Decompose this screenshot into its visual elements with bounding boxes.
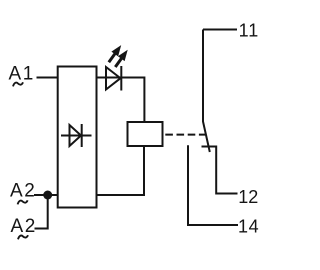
AC symbol ~ under lower A2 <box>18 235 28 239</box>
wire terminal 11 <box>203 29 237 31</box>
LED emission arrow 2 <box>115 50 127 67</box>
svg-text:A1: A1 <box>9 64 35 85</box>
AC symbol ~ under A1 <box>13 82 23 86</box>
svg-text:12: 12 <box>238 187 258 207</box>
NC contact 12 branch <box>202 147 238 194</box>
dashed actuation line coil to contact lever <box>165 134 205 136</box>
relay coil K1 <box>128 122 163 146</box>
terminal label A1 <box>9 64 35 85</box>
AC symbol ~ under upper A2 <box>18 200 28 204</box>
terminal label 12 <box>238 187 258 207</box>
terminal label 11 <box>239 21 260 41</box>
terminal label 14 <box>238 217 259 237</box>
diode D1 inside block <box>61 124 92 147</box>
NO contact 14 branch <box>188 145 238 225</box>
terminal label A2 (lower) <box>11 216 37 237</box>
LED emission arrow 1 <box>109 45 121 62</box>
LED diode <box>106 66 121 91</box>
contact lever from 11 <box>203 30 210 153</box>
wire A2 (lower) up to junction <box>35 195 48 229</box>
terminal label A2 (upper) <box>10 181 36 202</box>
svg-text:A2: A2 <box>11 216 37 237</box>
wire rectifier to LED to coil corner <box>97 78 145 123</box>
wire A2 (upper) to junction <box>34 194 58 196</box>
rectifier block outline <box>58 67 97 208</box>
wire coil bottom to rectifier bottom <box>97 146 145 195</box>
wire A1 to rectifier block <box>37 77 59 79</box>
svg-text:14: 14 <box>238 217 259 237</box>
svg-text:11: 11 <box>239 21 260 41</box>
junction dot <box>43 191 52 200</box>
svg-text:A2: A2 <box>10 181 36 202</box>
